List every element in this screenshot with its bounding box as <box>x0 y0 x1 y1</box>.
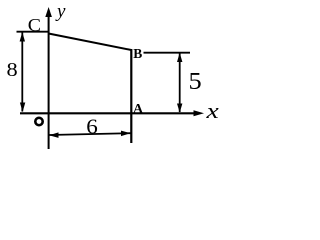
svg-text:y: y <box>55 1 66 22</box>
svg-text:C: C <box>28 16 41 36</box>
svg-text:6: 6 <box>86 114 98 138</box>
svg-text:5: 5 <box>189 69 202 95</box>
svg-text:x: x <box>205 99 218 123</box>
svg-text:8: 8 <box>7 58 18 81</box>
svg-text:B: B <box>133 46 142 61</box>
svg-text:A: A <box>133 102 144 117</box>
